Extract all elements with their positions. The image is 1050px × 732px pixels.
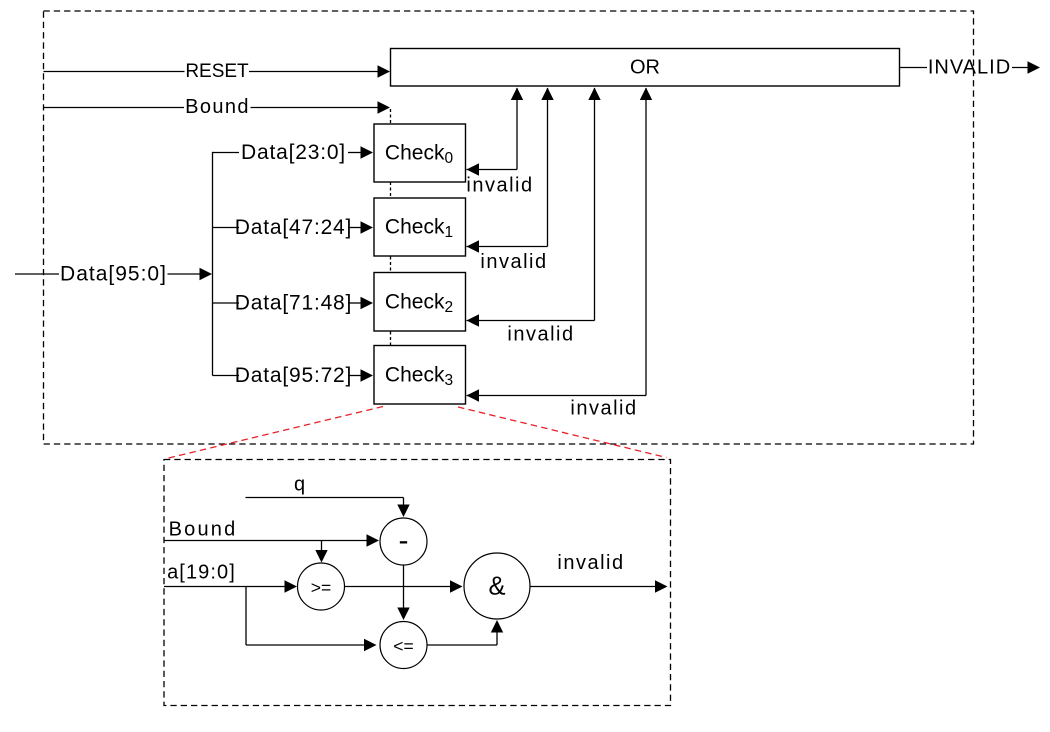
svg-text:Data[23:0]: Data[23:0] [241,141,346,164]
block Check1 [374,198,466,256]
wire <= output into AND [427,620,503,645]
block Check2 [374,273,466,332]
wire invalid feedback Check3 to OR [467,88,653,402]
wire Bound branch into comparator >= [315,541,327,563]
svg-text:invalid: invalid [557,552,624,574]
svg-text:Data[71:48]: Data[71:48] [235,292,352,315]
block Check0 [374,124,466,182]
wire invalid feedback Check2 to OR [467,88,601,327]
wire a[19:0] into comparator >= [164,580,297,592]
wire Data[47:24] branch to Check1 [213,221,374,233]
red zoom guide line left [169,407,384,459]
svg-text:-: - [399,524,409,557]
svg-text:RESET: RESET [185,61,249,82]
detail dashed boundary (Check3 internals) [164,460,671,706]
svg-text:Data[95:0]: Data[95:0] [60,263,167,286]
wire data fan-out bus vertical [212,152,214,376]
wire Bound dashed distribution down the Check column [390,109,392,345]
block Check3 [374,346,466,405]
svg-text:Check1: Check1 [385,216,453,241]
svg-text:Data[95:72]: Data[95:72] [235,364,352,387]
wire q input to subtractor [246,498,410,518]
svg-text:Check2: Check2 [385,290,453,315]
svg-text:a[19:0]: a[19:0] [167,562,236,584]
wire a[19:0] branch into comparator <= [246,587,377,652]
wire INVALID output [900,61,1041,73]
svg-text:Bound: Bound [185,96,250,118]
outer dashed boundary (top-level module) [44,11,974,444]
svg-text:INVALID: INVALID [928,57,1011,79]
svg-text:Check3: Check3 [385,363,453,388]
svg-text:invalid: invalid [570,398,637,420]
wire invalid feedback Check0 to OR [467,88,524,176]
wire Bound into subtractor [164,534,379,546]
svg-text:>=: >= [311,578,331,598]
svg-text:invalid: invalid [466,175,533,197]
svg-text:invalid: invalid [507,324,574,346]
wire invalid output of detail [530,580,668,592]
wire Bound input [44,101,391,113]
wire Data[71:48] branch to Check2 [213,297,374,309]
comparator node <= [380,622,427,669]
red zoom guide line right [458,407,667,458]
wire invalid feedback Check1 to OR [467,88,554,253]
svg-text:invalid: invalid [480,251,547,273]
svg-text:<=: <= [393,636,413,656]
wire Data[95:0] input [15,268,212,280]
comparator node >= [298,563,345,610]
and node & [464,553,530,619]
svg-text:&: & [488,573,505,601]
wire RESET input [44,65,391,77]
svg-text:Bound: Bound [169,519,238,541]
svg-text:Check0: Check0 [385,142,454,167]
wire Data[95:72] branch to Check3 [213,369,374,381]
wire Data[23:0] branch to Check0 [213,146,374,158]
wire subtractor output into comparator <= [397,565,409,620]
svg-text:Data[47:24]: Data[47:24] [235,216,352,239]
svg-text:OR: OR [630,57,660,79]
wire >= output into AND [345,580,463,592]
svg-text:q: q [294,474,305,496]
or-gate box OR [391,49,900,87]
subtractor node - [380,518,427,565]
